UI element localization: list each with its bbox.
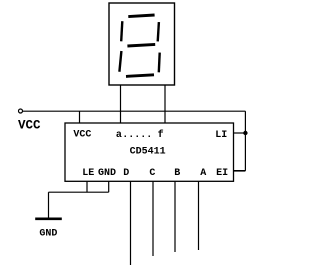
svg-text:f: f [158,129,164,141]
loop wire vertical [244,111,246,171]
IC U1 CD5411 box [65,123,234,181]
segment g [127,44,155,46]
svg-text:A: A [200,168,206,179]
svg-text:VCC: VCC [18,119,41,133]
svg-text:D: D [123,168,129,179]
segment a [128,15,154,17]
display lead left [120,85,122,123]
ground drop wire [48,192,50,219]
svg-text:EI: EI [216,168,228,179]
svg-text:.....: ..... [122,130,152,141]
VCC pin stub wire [79,111,81,123]
LE pin stub wire [86,181,88,192]
svg-text:GND: GND [98,168,116,179]
svg-text:C: C [149,168,155,179]
svg-text:B: B [174,168,180,179]
svg-text:a: a [116,130,122,141]
svg-text:CD5411: CD5411 [130,146,166,157]
pin D wire [130,181,132,265]
GND pin stub wire [108,181,110,192]
VCC terminal circle [19,109,23,113]
LE-GND tie wire [49,191,109,193]
VCC rail wire [23,110,246,112]
pin C wire [152,181,154,256]
EI stub wire [234,170,246,172]
svg-text:VCC: VCC [73,130,91,141]
segment c [158,53,161,73]
segment d [126,75,154,77]
svg-text:GND: GND [39,229,57,240]
LI stub wire [234,132,246,134]
ground bar [35,218,62,221]
segment e [119,51,121,72]
pin B wire [174,181,176,252]
7-segment display DS1 body [109,3,175,85]
pin A wire [198,181,200,250]
svg-text:LE: LE [82,168,94,179]
svg-text:LI: LI [215,130,227,141]
junction node LI/VCC [243,131,247,135]
display lead right [164,85,166,123]
segment b [158,22,159,41]
segment f [121,21,122,41]
